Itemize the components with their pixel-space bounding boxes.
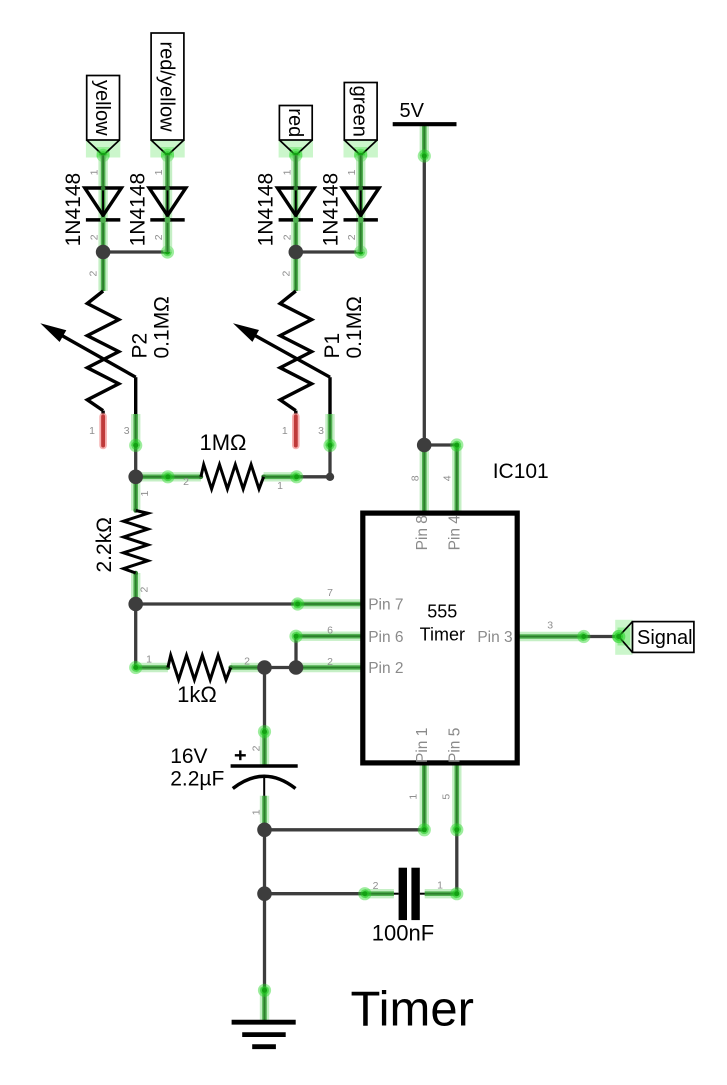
svg-text:Pin 7: Pin 7 — [368, 597, 403, 614]
svg-text:2: 2 — [346, 234, 358, 240]
svg-text:Pin 6: Pin 6 — [368, 629, 403, 646]
svg-text:1: 1 — [153, 169, 165, 175]
svg-text:5V: 5V — [400, 100, 425, 122]
svg-text:green: green — [349, 86, 371, 137]
svg-text:3: 3 — [124, 425, 130, 437]
svg-text:Timer: Timer — [420, 624, 465, 644]
svg-text:7: 7 — [327, 587, 333, 599]
svg-text:P1: P1 — [321, 333, 344, 359]
svg-text:1: 1 — [407, 794, 419, 800]
svg-text:5: 5 — [440, 794, 452, 800]
svg-text:red: red — [284, 108, 306, 137]
svg-text:2.2kΩ: 2.2kΩ — [93, 517, 116, 572]
svg-text:2: 2 — [251, 745, 263, 751]
svg-text:1: 1 — [281, 169, 293, 175]
svg-text:2: 2 — [183, 476, 189, 488]
svg-text:1: 1 — [89, 169, 101, 175]
svg-text:Pin 8: Pin 8 — [414, 515, 431, 550]
svg-text:1N4148: 1N4148 — [255, 173, 278, 247]
svg-text:0.1MΩ: 0.1MΩ — [343, 296, 366, 358]
svg-text:P2: P2 — [128, 333, 151, 359]
svg-text:2.2µF: 2.2µF — [170, 768, 224, 791]
svg-text:1: 1 — [146, 653, 152, 665]
svg-text:8: 8 — [410, 475, 422, 481]
svg-text:1MΩ: 1MΩ — [199, 430, 246, 455]
svg-text:555: 555 — [427, 602, 457, 622]
svg-text:1kΩ: 1kΩ — [177, 682, 217, 707]
svg-text:2: 2 — [89, 234, 101, 240]
svg-text:2: 2 — [244, 655, 250, 667]
svg-text:1: 1 — [346, 169, 358, 175]
svg-text:2: 2 — [327, 656, 333, 668]
svg-text:Pin 5: Pin 5 — [446, 728, 463, 763]
svg-text:2: 2 — [153, 234, 165, 240]
svg-text:3: 3 — [547, 620, 553, 632]
svg-text:1: 1 — [437, 880, 443, 892]
svg-text:2: 2 — [373, 880, 379, 892]
svg-text:1N4148: 1N4148 — [62, 173, 85, 247]
svg-text:0.1MΩ: 0.1MΩ — [150, 296, 173, 358]
svg-text:1: 1 — [282, 425, 288, 437]
svg-text:4: 4 — [442, 475, 454, 481]
svg-text:1: 1 — [139, 491, 151, 497]
svg-text:Pin 4: Pin 4 — [446, 515, 463, 551]
svg-text:2: 2 — [280, 271, 292, 277]
svg-text:red/yellow: red/yellow — [156, 41, 178, 132]
svg-text:2: 2 — [138, 587, 150, 593]
svg-text:Pin 3: Pin 3 — [477, 629, 512, 646]
svg-text:100nF: 100nF — [372, 920, 434, 945]
svg-text:1N4148: 1N4148 — [320, 173, 343, 247]
svg-text:1: 1 — [277, 480, 283, 492]
svg-text:16V: 16V — [170, 745, 207, 768]
svg-text:IC101: IC101 — [493, 460, 549, 483]
svg-text:Pin 2: Pin 2 — [368, 660, 403, 677]
svg-text:Signal: Signal — [637, 627, 693, 649]
svg-text:1N4148: 1N4148 — [126, 173, 149, 247]
svg-text:Pin 1: Pin 1 — [414, 728, 431, 763]
svg-text:1: 1 — [89, 425, 95, 437]
svg-text:Timer: Timer — [351, 983, 474, 1037]
svg-text:2: 2 — [88, 271, 100, 277]
svg-text:2: 2 — [281, 234, 293, 240]
svg-text:yellow: yellow — [91, 80, 113, 136]
svg-text:1: 1 — [251, 809, 263, 815]
svg-text:3: 3 — [318, 425, 324, 437]
svg-text:6: 6 — [327, 625, 333, 637]
